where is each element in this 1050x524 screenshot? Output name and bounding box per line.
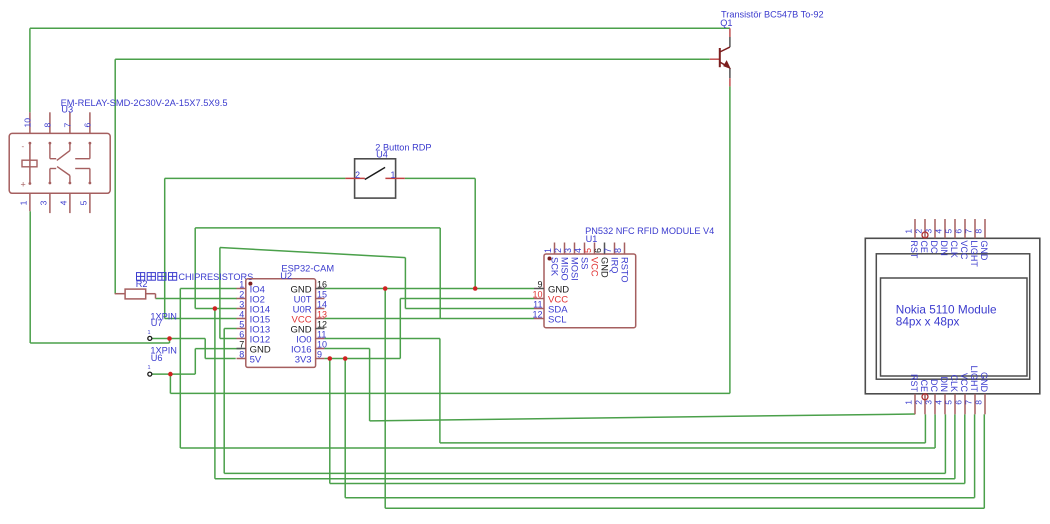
svg-text:1: 1 <box>391 170 396 180</box>
svg-text:1: 1 <box>148 365 151 371</box>
svg-text:7: 7 <box>963 400 973 405</box>
wire IO16 to Nokia RST <box>324 349 915 421</box>
svg-text:2: 2 <box>355 170 360 180</box>
svg-text:MOSI: MOSI <box>570 257 580 281</box>
svg-text:6: 6 <box>593 248 603 253</box>
svg-text:VCC: VCC <box>959 373 969 393</box>
wire Nokia CE drop <box>924 414 926 443</box>
wire Nokia DIN drop <box>944 414 946 473</box>
svg-text:10: 10 <box>22 118 32 128</box>
wire base net Q1 to R2 <box>115 59 710 294</box>
svg-text:MISO: MISO <box>560 257 570 281</box>
svg-text:RSTO: RSTO <box>620 257 630 283</box>
svg-text:1: 1 <box>543 248 553 253</box>
junction 3V3 / Nokia VCC <box>328 356 333 361</box>
svg-text:U1: U1 <box>586 234 598 244</box>
svg-text:RST: RST <box>909 240 919 259</box>
svg-text:12: 12 <box>317 320 327 330</box>
svg-text:4: 4 <box>573 248 583 253</box>
svg-text:3V3: 3V3 <box>295 355 312 366</box>
svg-text:CLK: CLK <box>949 374 959 392</box>
wire PN532 VCC to 3V3 row <box>400 299 534 359</box>
svg-text:1: 1 <box>148 330 151 336</box>
wire switch pin2 to IO15/SCL row <box>165 178 346 318</box>
svg-text:10: 10 <box>317 340 327 350</box>
svg-text:2: 2 <box>239 290 244 300</box>
wire GND row ESP32 pin16 to PN532 pin9 <box>324 288 534 290</box>
wire U7 to ESP32 5V <box>152 339 236 359</box>
svg-text:DIN: DIN <box>939 377 949 393</box>
junction U7 / relay coil <box>167 336 172 341</box>
svg-text:8: 8 <box>973 400 983 405</box>
svg-text:7: 7 <box>964 229 974 234</box>
svg-text:5: 5 <box>239 320 244 330</box>
wire Nokia VCC drop <box>964 414 966 483</box>
svg-text:6: 6 <box>82 123 92 128</box>
svg-text:U2: U2 <box>280 271 292 281</box>
svg-text:2: 2 <box>553 248 563 253</box>
wire 3V3 to Nokia VCC <box>330 359 965 484</box>
pushbutton U4 <box>345 142 431 198</box>
wire 3V3 row <box>324 358 400 360</box>
svg-text:2: 2 <box>913 400 923 405</box>
svg-text:LIGHT: LIGHT <box>969 365 979 392</box>
Nokia 5110 LCD module <box>865 219 1040 414</box>
wire SDA net PN532 pin11 to IO13 <box>220 248 534 339</box>
svg-text:4: 4 <box>239 310 244 320</box>
svg-text:6: 6 <box>953 400 963 405</box>
svg-text:3: 3 <box>239 300 244 310</box>
svg-text:IRQ: IRQ <box>610 257 620 274</box>
svg-text:GND: GND <box>979 372 989 393</box>
svg-text:U6: U6 <box>151 353 163 363</box>
svg-text:8: 8 <box>42 123 52 128</box>
svg-text:12: 12 <box>532 310 542 320</box>
svg-text:9: 9 <box>317 350 322 360</box>
svg-text:U3: U3 <box>61 105 73 115</box>
svg-text:+: + <box>21 180 26 190</box>
svg-text:7: 7 <box>603 248 613 253</box>
svg-text:13: 13 <box>317 310 327 320</box>
svg-text:4: 4 <box>934 229 944 234</box>
wire IO0 to Nokia CE <box>324 339 925 443</box>
wire SCL row PN532 pin12 to switch <box>165 318 534 320</box>
wire Nokia LIGHT drop <box>974 414 976 497</box>
PN532 module U1 <box>532 226 714 328</box>
svg-text:15: 15 <box>317 290 327 300</box>
svg-text:U4: U4 <box>376 150 388 160</box>
transistor Q1 <box>710 10 824 87</box>
svg-text:84px x 48px: 84px x 48px <box>896 315 960 329</box>
pin header U7 <box>148 311 177 340</box>
svg-text:VCC: VCC <box>959 240 969 260</box>
svg-text:SCK: SCK <box>550 257 560 277</box>
wire Nokia CLK drop <box>954 414 956 479</box>
svg-text:8: 8 <box>239 350 244 360</box>
svg-text:11: 11 <box>317 330 326 340</box>
wire IO13 to Nokia DIN <box>224 329 945 474</box>
svg-text:6: 6 <box>954 229 964 234</box>
pin header U6 <box>148 345 177 376</box>
svg-text:Transistör BC547B To-92: Transistör BC547B To-92 <box>721 10 824 20</box>
svg-text:PN532 NFC RFID MODULE V4: PN532 NFC RFID MODULE V4 <box>585 226 714 236</box>
wire IO4 to Nokia DC <box>180 289 935 449</box>
svg-text:9: 9 <box>537 280 542 290</box>
svg-text:GND: GND <box>600 257 610 278</box>
wire U6 to ESP32 GND pin7 <box>152 349 241 375</box>
junction U6 / GND bus <box>168 372 173 377</box>
junction GND row / Nokia GND <box>383 286 388 291</box>
svg-text:CE: CE <box>919 240 929 253</box>
svg-text:1: 1 <box>903 400 913 405</box>
svg-text:3: 3 <box>39 200 49 205</box>
junction GND row / switch <box>473 286 478 291</box>
svg-text:SCL: SCL <box>548 315 566 326</box>
svg-text:5: 5 <box>583 248 593 253</box>
svg-text:DC: DC <box>929 240 939 253</box>
svg-text:Q1: Q1 <box>720 18 732 28</box>
svg-text:5: 5 <box>943 400 953 405</box>
relay U3 <box>9 98 227 213</box>
wire 3V3 to Nokia LIGHT <box>345 359 974 498</box>
wire SCL up-over to IO14 <box>195 228 440 319</box>
svg-text:16: 16 <box>317 280 327 290</box>
svg-text:7: 7 <box>239 340 244 350</box>
svg-text:3: 3 <box>923 400 933 405</box>
svg-text:U7: U7 <box>151 318 163 328</box>
junction 3V3 / Nokia LIGHT <box>343 356 348 361</box>
svg-text:EM-RELAY-SMD-2C30V-2A-15X7.5X9: EM-RELAY-SMD-2C30V-2A-15X7.5X9.5 <box>61 98 228 108</box>
wire switch pin1 to GND row <box>405 178 475 288</box>
svg-text:-: - <box>22 142 25 151</box>
wire collector net Q1 to relay pin10 <box>30 28 730 112</box>
svg-text:3: 3 <box>563 248 573 253</box>
svg-text:3: 3 <box>924 229 934 234</box>
svg-text:5: 5 <box>79 200 89 205</box>
svg-text:5: 5 <box>944 229 954 234</box>
svg-text:DIN: DIN <box>939 240 949 256</box>
svg-text:1: 1 <box>19 200 29 205</box>
wire GND row to Nokia GND <box>385 289 984 509</box>
svg-text:4: 4 <box>59 200 69 205</box>
svg-text:1: 1 <box>904 229 914 234</box>
junction IO14 / CLK <box>213 306 218 311</box>
svg-text:SS: SS <box>580 257 590 269</box>
wire R2 to ESP32 IO2 <box>156 298 238 300</box>
wire U6 to emitter GND bus <box>170 86 730 393</box>
wire IO14 junction to Nokia CLK <box>215 309 955 479</box>
svg-text:8: 8 <box>613 248 623 253</box>
svg-text:6: 6 <box>239 330 244 340</box>
wire Nokia DC drop <box>934 414 936 448</box>
svg-text:CLK: CLK <box>949 240 959 258</box>
svg-text:10: 10 <box>532 290 542 300</box>
svg-text:GND: GND <box>979 240 989 261</box>
svg-text:5V: 5V <box>250 355 262 366</box>
svg-text:14: 14 <box>317 300 327 310</box>
wire Nokia GND drop <box>983 414 985 508</box>
svg-text:DC: DC <box>929 379 939 392</box>
svg-text:8: 8 <box>974 229 984 234</box>
svg-text:LIGHT: LIGHT <box>969 240 979 267</box>
svg-text:4: 4 <box>933 400 943 405</box>
wire relay pin1 to 5V node <box>30 211 169 343</box>
svg-text:RST: RST <box>909 374 919 393</box>
IC U2 ESP32-CAM module <box>237 263 335 367</box>
svg-text:1: 1 <box>239 280 244 290</box>
svg-text:VCC: VCC <box>590 257 600 277</box>
svg-text:11: 11 <box>533 300 542 310</box>
svg-text:CE: CE <box>919 379 929 392</box>
resistor R2 <box>115 272 254 299</box>
svg-text:R2: R2 <box>136 279 148 289</box>
svg-text:7: 7 <box>62 123 72 128</box>
